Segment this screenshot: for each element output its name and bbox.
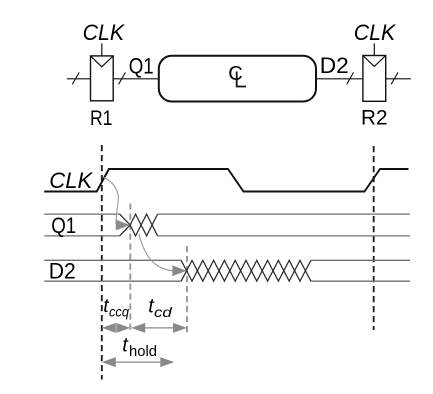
svg-text:CLK: CLK — [354, 20, 396, 45]
svg-text:Q1: Q1 — [129, 53, 154, 78]
svg-text:CLK: CLK — [83, 20, 125, 45]
svg-text:D2: D2 — [49, 259, 76, 284]
svg-text:hold: hold — [129, 343, 157, 360]
svg-text:ccq: ccq — [109, 305, 129, 320]
svg-text:R2: R2 — [361, 105, 388, 129]
svg-text:D2: D2 — [320, 53, 349, 78]
svg-text:R1: R1 — [90, 106, 113, 130]
svg-text:C: C — [228, 63, 243, 85]
svg-text:CLK: CLK — [49, 168, 93, 193]
svg-text:Q1: Q1 — [51, 213, 76, 238]
svg-text:cd: cd — [154, 304, 173, 320]
